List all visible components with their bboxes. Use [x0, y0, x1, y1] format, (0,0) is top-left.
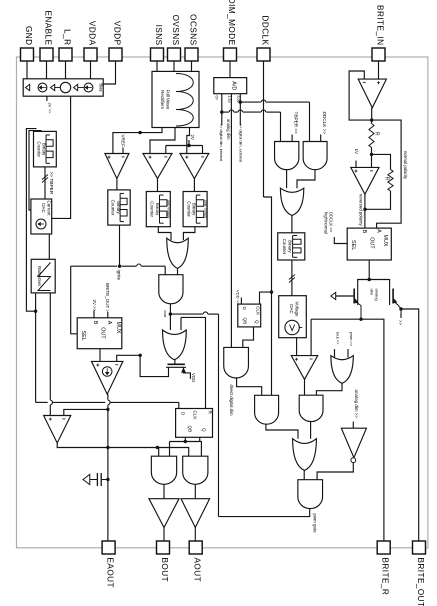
AND1 analog dim gate [224, 347, 249, 378]
inverter analog dim [341, 428, 366, 458]
buffer bout [149, 499, 179, 528]
binary counter c [183, 192, 207, 227]
pin OCSNS [185, 48, 198, 61]
svg-text:DAC: DAC [41, 203, 46, 213]
A/D 0V branch right [222, 111, 229, 113]
comparator comp2 [143, 154, 172, 179]
ddclk to small dff clk [260, 292, 272, 304]
tout to pwm-gate vertical [170, 313, 203, 315]
OR5 out to AND4 [303, 470, 305, 479]
FWR left output to comp1 [113, 128, 162, 154]
TBPER bus wire [44, 167, 46, 199]
A/D outputs [221, 94, 223, 126]
VREF stub comp1 [122, 148, 124, 154]
OR ddclk out to counter [291, 216, 293, 233]
bias arrowhead 2 [51, 84, 55, 90]
OR5 [293, 439, 317, 471]
ramp generator [31, 259, 55, 293]
wire L_R to bias [65, 61, 67, 79]
svg-text:Counter: Counter [282, 239, 287, 255]
svg-text:QB: QB [188, 426, 193, 433]
comparator PWM output line C [57, 443, 189, 456]
line B comp feedback [64, 409, 108, 415]
vdac out to comp4 [296, 338, 298, 356]
AND6 aout [183, 456, 208, 484]
brite_out stub [400, 313, 402, 318]
IC boundary (gray) [17, 57, 428, 548]
lineA into dff D [178, 402, 180, 408]
A/D block [214, 78, 247, 94]
svg-text:VDDP: VDDP [112, 21, 121, 46]
svg-text:over current: over current [204, 200, 208, 218]
wire ENABLE to bias [46, 61, 48, 79]
feedback resistor R2 [372, 154, 391, 169]
AND5 bout [151, 456, 176, 484]
normal polarity branch [372, 120, 401, 228]
BCb output to ignite line [119, 225, 121, 266]
svg-text:L_R: L_R [62, 29, 71, 45]
svg-text:QB: QB [243, 318, 248, 325]
full wave rectifiers block [152, 71, 199, 127]
svg-text:Counter: Counter [36, 141, 41, 157]
AND3 out [310, 422, 312, 439]
svg-text:Counter: Counter [150, 201, 155, 217]
svg-text:ISNS: ISNS [154, 25, 163, 46]
A/D 3.0V branch right [240, 101, 261, 103]
svg-text:OUT: OUT [368, 237, 374, 249]
wire ISNS [156, 61, 158, 71]
rampgen output wire A [35, 293, 37, 403]
svg-text:Binary: Binary [288, 240, 293, 253]
svg-text:CLK: CLK [193, 411, 198, 421]
pin ENABLE [40, 48, 53, 61]
pin BRITE_R [377, 541, 390, 554]
compensation cap arrowhead [83, 474, 90, 484]
svg-text:Voltage: Voltage [295, 301, 300, 317]
OR4 out to AND3 [316, 383, 342, 395]
inverter out to AND4 [317, 463, 353, 480]
svg-text:tout >>: tout >> [335, 332, 340, 345]
svg-text:pwm >>: pwm >> [349, 332, 354, 347]
pin VDDP [109, 48, 122, 61]
feedback wire left inner [29, 131, 42, 210]
wire DIM_MODE to A/D [229, 61, 231, 78]
svg-text:SEL: SEL [80, 331, 86, 341]
svg-text:R: R [374, 132, 380, 136]
mux1 [77, 318, 122, 349]
svg-text:A: A [106, 321, 112, 325]
svg-text:tout: tout [163, 311, 168, 319]
svg-text:>> TBPER: >> TBPER [48, 172, 54, 195]
svg-text:2V >>: 2V >> [48, 103, 53, 114]
small dff vdd [238, 304, 261, 327]
OR4 input stubs [334, 349, 336, 358]
BRITE_OUT stub to mux1 A [107, 312, 109, 318]
comp4 [291, 356, 317, 380]
svg-text:GND: GND [24, 26, 33, 46]
FWR right output to comp3 [187, 128, 190, 154]
svg-text:1.5V: 1.5V [227, 96, 231, 104]
pin L_R [59, 48, 72, 61]
R line to DFF [181, 317, 206, 408]
buffer aout [181, 499, 210, 528]
binary counter ignite [108, 190, 130, 225]
compensation cap [96, 473, 98, 486]
AND4 pwm gate [298, 480, 323, 509]
svg-text:A/D: A/D [231, 81, 237, 90]
wire OCSNS [191, 61, 193, 71]
svg-text:CLK: CLK [255, 306, 260, 316]
svg-text:DIM_MODE: DIM_MODE [227, 0, 236, 46]
svg-text:Counter: Counter [110, 200, 115, 216]
svg-text:VDDA: VDDA [87, 21, 96, 46]
svg-text:Full Wave: Full Wave [166, 90, 171, 110]
svg-text:Current: Current [47, 200, 52, 216]
svg-text:2V >>: 2V >> [92, 300, 97, 312]
comp1 to counter BCb [116, 179, 118, 190]
svg-text:BOUT: BOUT [160, 558, 169, 583]
2V reference stub [46, 96, 48, 101]
brite buffer amp [358, 79, 386, 108]
current DAC [31, 199, 52, 234]
svg-text:MUX: MUX [115, 322, 121, 334]
tout node [169, 304, 171, 330]
fet left source to node line [354, 301, 361, 319]
pin BRITE_OUT [413, 541, 426, 554]
bias current source I1 [38, 83, 47, 92]
mux1 out to error amp [99, 349, 101, 362]
line A ramp distribution [36, 401, 48, 403]
svg-text:B: B [92, 321, 98, 325]
svg-text:1V: 1V [354, 149, 359, 156]
amp2 out to mux2 B [364, 194, 366, 228]
svg-text:Bias: Bias [99, 83, 104, 91]
svg-text:normal polarity: normal polarity [403, 151, 408, 180]
AND1 out to OR [286, 170, 288, 189]
svg-text:TBPER >>: TBPER >> [294, 112, 299, 135]
BCc output to OR mid [183, 227, 195, 240]
OR gate tout2 [163, 330, 187, 360]
OR ddclk [280, 188, 303, 215]
mux1 SEL wire [71, 266, 78, 334]
svg-text:DDCLK >>: DDCLK >> [322, 112, 327, 135]
mux2 out to analog dim fets [368, 260, 370, 280]
OR4 [331, 356, 353, 384]
pin OVSNS [168, 48, 181, 61]
FWR mid output to comp2 [150, 128, 175, 154]
pass transistor [168, 363, 185, 365]
svg-text:DDCLK: DDCLK [260, 15, 269, 45]
pin EAOUT [102, 541, 115, 554]
svg-text:OCSNS: OCSNS [188, 14, 197, 45]
bias block [23, 79, 103, 96]
ignite line [71, 265, 117, 267]
svg-text:VREF: VREF [120, 135, 125, 147]
svg-text:MUX: MUX [382, 235, 388, 247]
wire GND to bias [26, 61, 28, 79]
wire DDCLK down [263, 61, 265, 197]
voltage DAC [279, 296, 307, 338]
svg-text:Counter: Counter [186, 201, 191, 217]
wire OVSNS [173, 61, 175, 71]
svg-text:BRITE_OUT: BRITE_OUT [416, 558, 425, 606]
binary counter b2 [146, 192, 170, 227]
buffer feedback loop [349, 71, 372, 120]
svg-text:A: A [376, 229, 382, 233]
OR tout2 to pass fet gate [174, 360, 176, 365]
svg-text:B: B [361, 230, 367, 234]
OR mid to AND T [177, 268, 179, 274]
current DAC to rampgen wire [48, 234, 50, 260]
svg-text:OVSNS: OVSNS [171, 15, 180, 46]
svg-text:Q: Q [202, 428, 207, 432]
AND4 out pwm gate line [219, 509, 310, 517]
dff outputs to and gates [199, 437, 201, 441]
pin VDDA [84, 48, 97, 61]
comp3 to counter BCc [193, 179, 195, 192]
analog dim fet left [358, 280, 370, 288]
svg-text:0V: 0V [215, 96, 219, 101]
AND2b [255, 395, 279, 424]
1V stub [355, 161, 357, 168]
VDD stub to small dff [240, 298, 242, 305]
svg-text:VDD: VDD [191, 373, 196, 382]
ddclk counter bus out [291, 260, 293, 296]
fet node line to BRITE_R [311, 319, 384, 541]
bias arrowhead 1 [26, 84, 30, 90]
comparator ignite comp1 [105, 154, 129, 179]
comp4 out to AND3 [304, 379, 306, 395]
feedback wire left outer [26, 129, 36, 312]
bias current source I3 [84, 83, 93, 92]
error amp output to EAOUT node [107, 394, 109, 400]
bias to current DAC wire [52, 96, 71, 218]
bias arrowhead 3 [74, 84, 78, 90]
svg-text:DAC: DAC [289, 304, 294, 314]
svg-text:>> digital dim, external: >> digital dim, external [238, 124, 242, 162]
comp2 to counter BCb2 [157, 179, 159, 192]
svg-text:Ignite: Ignite [116, 270, 121, 281]
center dff [176, 409, 213, 438]
svg-text:direct digital dim: direct digital dim [229, 385, 234, 416]
2V stub to mux1 B [93, 311, 95, 318]
BCb2 output to OR mid [158, 227, 171, 240]
pin BOUT [157, 541, 170, 554]
svg-text:BRITE_OUT >: BRITE_OUT > [105, 283, 110, 312]
svg-text:dim: dim [370, 289, 375, 296]
comparator comp3 [180, 154, 209, 179]
svg-text:>> digital dim, internal: >> digital dim, internal [219, 124, 223, 161]
amp2 input from R1 [371, 154, 373, 167]
small dff Q to AND1 [243, 327, 254, 348]
pin AOUT [189, 541, 202, 554]
ignite line corner into AND T [164, 266, 166, 275]
pin DDCLK [257, 48, 270, 61]
svg-text:SEL: SEL [350, 240, 356, 250]
svg-text:reversed polarity: reversed polarity [359, 194, 364, 227]
svg-text:R: R [383, 177, 389, 181]
svg-text:Q: Q [254, 320, 259, 324]
pin BRITE_IN [372, 48, 385, 61]
pin DIM_MODE [224, 48, 237, 61]
svg-text:>>: >> [398, 320, 403, 326]
AND ddclk 1 [275, 142, 299, 170]
svg-text:2V: 2V [190, 135, 195, 140]
mux2 [347, 228, 391, 260]
AND ddclk 2 [303, 142, 327, 170]
svg-text:AOUT: AOUT [193, 558, 202, 583]
AND3 [299, 395, 323, 421]
OR gate mid [167, 238, 189, 268]
pin GND [21, 48, 34, 61]
AND1 out to AND2b [237, 378, 262, 395]
svg-text:over voltage: over voltage [167, 200, 171, 219]
svg-text:EAOUT: EAOUT [105, 558, 114, 588]
wire VDDP to bias block [103, 61, 115, 84]
pin ISNS [151, 48, 164, 61]
rampgen output wire B [49, 293, 51, 400]
fet right source to brite_out [393, 301, 401, 313]
amp2 inverting [351, 167, 379, 194]
binary counter TBPER [34, 131, 57, 167]
comp4 minus from fet node [310, 319, 312, 355]
svg-text:OUT: OUT [100, 327, 106, 339]
error amp minus input wire [117, 355, 141, 361]
AND2b out to OR5 [266, 424, 298, 439]
svg-text:ENABLE: ENABLE [43, 10, 52, 45]
binary counter ddclk [278, 233, 305, 260]
wire VDDA to bias [90, 61, 92, 79]
comparator PWM [44, 416, 71, 444]
svg-text:VDD >>: VDD >> [236, 290, 241, 305]
svg-text:high/normal: high/normal [324, 212, 329, 234]
2V line comps [165, 146, 167, 154]
svg-text:Rectifiers: Rectifiers [160, 90, 165, 110]
svg-text:analog dim >>: analog dim >> [354, 390, 359, 419]
wire BRITE_IN to buffer [378, 61, 380, 79]
resistor R1 [369, 124, 374, 148]
bias current source I2 (L_R) [60, 82, 70, 92]
svg-text:analog dim: analog dim [226, 119, 231, 140]
AND2 out to OR [297, 170, 315, 189]
svg-text:BRITE_R: BRITE_R [381, 558, 390, 596]
error amp gm [92, 361, 123, 394]
AND gate tout [159, 275, 183, 304]
svg-text:pwm gate: pwm gate [312, 514, 317, 534]
analog dim fet right [369, 280, 389, 288]
svg-text:BRITE_IN: BRITE_IN [375, 5, 384, 45]
